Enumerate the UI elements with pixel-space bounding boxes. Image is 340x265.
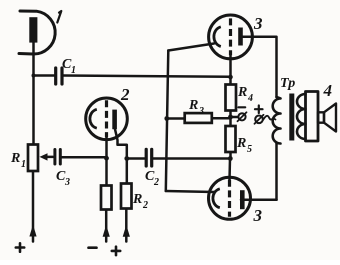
svg-text:4: 4	[323, 81, 333, 100]
svg-text:R: R	[237, 85, 247, 100]
svg-text:R: R	[188, 98, 198, 113]
svg-text:Тр: Тр	[280, 76, 295, 91]
svg-text:2: 2	[153, 177, 159, 188]
svg-text:1: 1	[21, 159, 26, 170]
svg-text:R: R	[132, 192, 142, 207]
svg-text:5: 5	[247, 144, 252, 155]
svg-text:R: R	[236, 136, 246, 151]
svg-text:3: 3	[64, 177, 70, 188]
svg-text:3: 3	[198, 106, 204, 117]
svg-text:1: 1	[71, 65, 76, 76]
svg-text:2: 2	[120, 85, 130, 104]
svg-text:3: 3	[253, 14, 263, 33]
svg-text:2: 2	[142, 200, 148, 211]
svg-text:4: 4	[247, 93, 253, 104]
svg-text:3: 3	[253, 206, 263, 225]
svg-text:R: R	[10, 151, 20, 166]
